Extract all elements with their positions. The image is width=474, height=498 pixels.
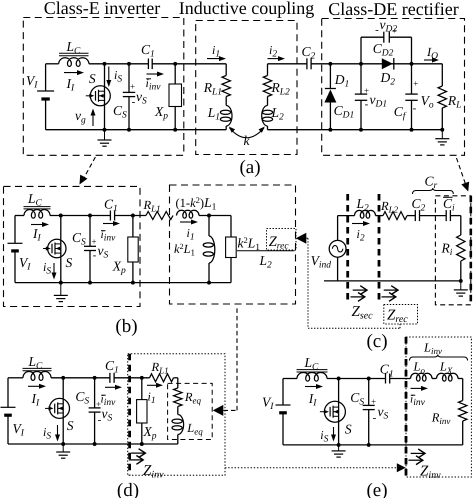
resistor RL1 (b) <box>146 212 173 220</box>
node Cf bottom <box>410 128 414 132</box>
wire top rail (d) <box>8 377 23 379</box>
wire secondary top (a) <box>268 63 307 65</box>
node RL bottom <box>440 128 444 132</box>
node source (a) <box>103 128 107 132</box>
current arrow II (e) <box>305 386 321 388</box>
node drain (b) <box>59 214 63 218</box>
node Xp top (d) <box>140 376 144 380</box>
dashed box Req Leq (d) <box>168 383 213 439</box>
node ground (c) <box>459 279 463 283</box>
node CS bottom (a) <box>127 128 131 132</box>
capacitor CS (e) <box>368 379 370 406</box>
resistor RL1 (a) <box>225 64 227 76</box>
node drain (a) <box>103 62 107 66</box>
current arrow iS (e) <box>333 427 335 440</box>
arrowhead pointer into (b) reflected load <box>296 233 307 244</box>
current arrow i2 (a) <box>268 58 284 60</box>
node CS bottom (e) <box>367 443 371 447</box>
node D1 bottom <box>328 128 332 132</box>
node drain (d) <box>61 376 65 380</box>
node source (b) <box>59 281 63 285</box>
capacitor CS (a) <box>128 64 130 93</box>
diode D1 (a) <box>329 64 331 88</box>
wire top rail (c) <box>338 215 355 217</box>
dotted box (d) <box>128 354 225 476</box>
reference plane Zrec thick dashed (c) <box>378 194 381 304</box>
battery VI (b) <box>14 216 16 244</box>
svg-text:S: S <box>67 418 74 433</box>
wire bottom rail (c) <box>324 280 461 282</box>
capacitor C2 (c) <box>414 210 416 221</box>
current arrow iinv (d) <box>105 386 120 388</box>
svg-text:Class-DE rectifier: Class-DE rectifier <box>328 0 458 19</box>
ground (d) <box>62 444 64 452</box>
node CS top (a) <box>127 62 131 66</box>
transistor S MOSFET (d) <box>50 398 70 418</box>
inductor L1 (a) <box>225 97 227 106</box>
node CD1 top <box>359 62 363 66</box>
current arrow II (b) <box>31 224 47 226</box>
gate drive arrow vg (a) <box>92 111 94 127</box>
current arrow iS (a) <box>108 67 110 86</box>
reactance Xp box (a) <box>174 64 176 84</box>
inductor Lo (e) <box>411 373 433 381</box>
inductor leakage (1-k2)L1 (b) <box>177 210 199 218</box>
node Xp bottom (b) <box>131 281 135 285</box>
svg-text:S: S <box>345 422 352 437</box>
impedance arrows Zinv (d) <box>131 452 145 454</box>
svg-text:(e): (e) <box>366 480 387 498</box>
reactance Xp box (b) <box>132 216 134 238</box>
node D2 right <box>410 62 414 66</box>
pointer arrow from (a) to (b) <box>83 157 95 180</box>
svg-text:-: - <box>98 414 102 426</box>
capacitor Ci (c) <box>445 210 447 221</box>
wire bottom rail (d) <box>8 443 178 445</box>
resistor RL2 (a) <box>267 64 269 76</box>
resistor Req (d) <box>174 388 182 407</box>
ground (e) <box>338 445 340 451</box>
node Xp top (b) <box>131 214 135 218</box>
coupling arrow k (a) <box>230 128 265 138</box>
current arrow iS (b) <box>53 263 55 278</box>
ground (a) rectifier <box>441 130 443 139</box>
svg-text:Inductive coupling: Inductive coupling <box>179 0 314 18</box>
node source (e) <box>337 443 341 447</box>
battery VI (d) <box>7 378 9 408</box>
reference plane thick dashed (d) <box>128 354 131 476</box>
node CS bottom (b) <box>88 281 92 285</box>
wire top rail inverter (a) <box>46 63 59 65</box>
capacitor CD1 (a) <box>360 64 362 94</box>
battery VI (e) <box>282 379 284 406</box>
capacitor Cf (a) <box>411 64 413 94</box>
reference plane Zsec thick dashed (c) <box>346 194 349 304</box>
svg-text:(b): (b) <box>115 316 137 337</box>
node CS top (b) <box>88 214 92 218</box>
node CS bottom (d) <box>93 442 97 446</box>
current arrow iS (d) <box>57 425 59 440</box>
battery VI (a) <box>45 64 47 91</box>
equivalent branch wire (d) <box>177 378 179 388</box>
node Xp top (a) <box>173 62 177 66</box>
capacitor C1 (a) <box>147 59 149 70</box>
impedance arrows Zsec (c) <box>353 289 367 291</box>
svg-text:(a): (a) <box>239 157 260 178</box>
wire secondary bottom (a) <box>268 129 443 131</box>
dashed box (b) inverter <box>4 186 141 306</box>
reactance Xp box (d) <box>141 378 143 400</box>
wire top rail (e) <box>283 378 297 380</box>
node Xp bottom (a) <box>173 128 177 132</box>
wire top rail (b) <box>15 215 24 217</box>
node magnetizing branch (b) <box>207 214 211 218</box>
inductor L2 (c) <box>354 210 375 218</box>
capacitor CS (b) <box>89 216 91 247</box>
ground (a) inverter <box>104 130 106 140</box>
current arrow i1 (b) <box>180 221 196 223</box>
node source (d) <box>61 442 65 446</box>
resistor RL (a) <box>441 64 443 86</box>
svg-text:-: - <box>93 250 97 262</box>
current arrow i2 (c) <box>352 223 368 225</box>
inductor L2 (a) <box>267 97 269 106</box>
dashed connector (b) to (d) <box>224 409 238 411</box>
svg-text:-: - <box>413 103 417 115</box>
svg-text:-: - <box>132 96 136 108</box>
current arrow IO (a) <box>424 59 437 61</box>
svg-text:S: S <box>66 255 73 270</box>
node CS top (e) <box>367 377 371 381</box>
svg-text:(c): (c) <box>366 331 387 352</box>
wire bottom rail (b) <box>15 282 231 284</box>
source Vind (c) <box>329 240 346 257</box>
inductor LC (b) <box>24 206 51 208</box>
transistor S MOSFET (e) <box>324 401 345 422</box>
capacitor CD2 (a) <box>360 37 362 64</box>
svg-text:+: + <box>130 82 135 92</box>
pointer arrow from (a) to (c) <box>457 158 466 184</box>
dashed box Cr (c) <box>435 196 470 305</box>
wire bottom rail (e) <box>283 444 463 446</box>
inductor LX (e) <box>437 373 459 381</box>
node D1 top <box>328 62 332 66</box>
transistor S MOSFET (a) <box>90 86 110 106</box>
current arrow iinv (b) <box>103 223 118 225</box>
impedance arrows Zinv (e) <box>411 452 425 454</box>
svg-text:k: k <box>244 133 251 148</box>
inductor Leq (d) <box>177 407 179 415</box>
resistor Ri (c) <box>460 216 462 235</box>
wire after leakage inductor (b) <box>199 215 231 217</box>
dotted connector (c) Zrec to (b) <box>307 237 309 239</box>
wire bottom rail inverter (a) <box>46 129 227 131</box>
svg-text:Class-E inverter: Class-E inverter <box>44 0 160 18</box>
dashed box Class-DE rectifier <box>322 19 465 156</box>
resistor RL2 (c) <box>383 212 407 220</box>
svg-text:S: S <box>89 71 96 86</box>
inductor LC (a) <box>59 52 89 54</box>
current arrow iinv (a) <box>147 73 163 75</box>
dashed box Class-E inverter <box>23 18 184 156</box>
diode D2 (a) <box>393 58 395 70</box>
node Xp bottom (d) <box>140 442 144 446</box>
node CD1 bottom <box>359 128 363 132</box>
capacitor CS (d) <box>94 378 96 408</box>
dashed box Inductive coupling <box>196 21 297 155</box>
current arrow II (d) <box>28 385 44 387</box>
svg-text:+: + <box>413 79 418 89</box>
svg-text:+: + <box>392 26 397 36</box>
inductor LC (e) <box>297 369 328 371</box>
node CS top (d) <box>93 376 97 380</box>
reference plane thick dashed (e) <box>405 337 408 477</box>
dotted connector (d) to (e) <box>225 467 397 469</box>
node drain (e) <box>337 377 341 381</box>
inductor k2L1 magnetizing (b) <box>208 216 210 237</box>
wire rectifier top rail (a) <box>330 63 442 65</box>
svg-text:+: + <box>91 237 96 247</box>
current arrow i1 (d) <box>147 384 161 386</box>
current arrow II (a) <box>64 72 82 74</box>
svg-text:-: - <box>373 412 377 424</box>
impedance arrows Zrec (c) <box>384 289 398 291</box>
capacitor C2 (a) <box>306 58 308 69</box>
resistor Rinv (e) <box>462 379 464 401</box>
dashed box (b) transformed secondary <box>170 185 296 304</box>
transistor S MOSFET (b) <box>48 239 66 257</box>
current arrow iinv (e) <box>411 387 427 389</box>
inductor LC (d) <box>23 367 52 369</box>
node magnetizing bottom (b) <box>207 281 211 285</box>
capacitor C1 (d) <box>109 373 111 383</box>
capacitor C1 (e) <box>385 374 387 384</box>
dotted box (e) <box>406 337 471 477</box>
ground (c) <box>460 281 462 290</box>
svg-text:(d): (d) <box>117 480 139 498</box>
svg-text:+: + <box>364 86 369 96</box>
svg-text:-: - <box>365 99 369 111</box>
current arrow i1 (a) <box>207 58 224 60</box>
ground (b) <box>60 283 62 296</box>
arrowhead pointer into (d) equivalent branch <box>213 405 224 416</box>
svg-text:+: + <box>371 397 376 407</box>
resistor RL1 (d) <box>150 374 174 382</box>
impedance box reflected load (b) <box>230 216 232 238</box>
capacitor C1 (b) <box>109 211 111 221</box>
